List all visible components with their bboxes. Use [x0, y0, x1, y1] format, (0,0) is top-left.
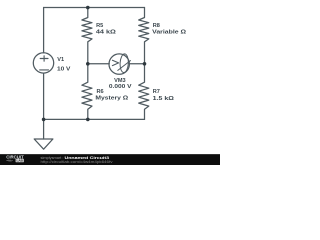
- svg-text:Mystery Ω: Mystery Ω: [95, 96, 128, 102]
- svg-text:R8: R8: [153, 23, 160, 29]
- V1 plus sign: [40, 56, 48, 61]
- wire V1 bottom lead: [43, 73, 45, 119]
- ground lead: [43, 119, 45, 139]
- resistor R7: [139, 64, 149, 120]
- svg-text:VM3: VM3: [114, 78, 126, 84]
- wire middle rail left: [88, 63, 109, 65]
- voltmeter VM3: [109, 54, 129, 74]
- wire middle rail right: [129, 63, 144, 65]
- V1 minus sign: [40, 69, 49, 71]
- svg-text:Variable Ω: Variable Ω: [152, 29, 186, 35]
- svg-text:V1: V1: [57, 57, 64, 63]
- VM3 letter V rotated: [112, 60, 118, 65]
- node bottom left: [42, 118, 46, 122]
- node top of R5: [86, 6, 90, 10]
- svg-text:44 kΩ: 44 kΩ: [96, 29, 116, 35]
- svg-text:1.5 kΩ: 1.5 kΩ: [153, 96, 175, 102]
- svg-text:http://circuitlab.com/c4w4m4pk: http://circuitlab.com/c4w4m4pk646fv: [41, 160, 113, 164]
- svg-text:10 V: 10 V: [57, 67, 71, 73]
- wire bottom rail: [44, 118, 145, 120]
- resistor R6: [82, 64, 92, 120]
- resistor R8: [139, 8, 149, 64]
- VM3 meter scale arc: [120, 54, 129, 73]
- voltage source V1: [33, 53, 53, 73]
- wire top rail: [44, 7, 145, 9]
- node middle left: [86, 62, 90, 66]
- svg-text:0.000 V: 0.000 V: [109, 84, 132, 90]
- VM3 needle: [118, 61, 131, 71]
- resistor R5: [82, 8, 92, 64]
- CircuitLab logo: [6, 154, 24, 162]
- ground symbol: [34, 139, 53, 149]
- wire V1 top lead to top rail: [43, 8, 45, 53]
- footer bar: [0, 154, 220, 165]
- node middle right: [143, 62, 147, 66]
- node bottom of R6: [86, 118, 90, 122]
- svg-text:R5: R5: [96, 23, 103, 29]
- svg-text:LAB: LAB: [17, 159, 24, 163]
- svg-text:R6: R6: [97, 89, 104, 95]
- svg-text:R7: R7: [153, 89, 160, 95]
